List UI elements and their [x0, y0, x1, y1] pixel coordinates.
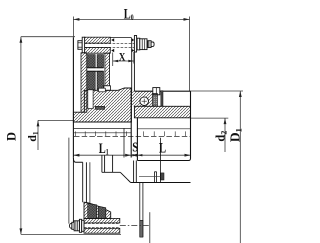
left hub bottom hook — [73, 158, 82, 162]
bolt B1 nut collar — [137, 38, 140, 50]
right band (hatched) — [134, 106, 190, 118]
lower sleeve left verticals — [68, 138, 70, 224]
seal blocks (cross hatch) — [153, 94, 158, 106]
dimension d2 — [191, 118, 229, 152]
bolt B1 tip — [151, 42, 154, 46]
svg-text:X: X — [119, 51, 126, 63]
lower teeth dark blocks — [88, 203, 97, 218]
hub slot — [88, 90, 93, 109]
bolt shank dashed lines — [85, 43, 135, 45]
hub dark bar — [95, 106, 104, 109]
lower flange upper strip — [84, 218, 120, 223]
ball pocket hatch — [132, 91, 153, 106]
right sleeve top face — [134, 90, 190, 92]
right hub right face — [190, 91, 192, 158]
top flange lower strip (hatched) — [85, 48, 111, 54]
dimension L0 — [73, 17, 189, 92]
lower flange lower strip — [84, 228, 120, 233]
flange OD line in gap — [110, 36, 131, 38]
S gap faces — [130, 88, 132, 158]
lower middle structure — [101, 155, 103, 172]
bottom bolt tip — [70, 223, 72, 228]
long stud bottom middle — [139, 183, 141, 238]
svg-text:D: D — [5, 132, 19, 141]
left sleeve wall (hatched column) — [81, 53, 87, 112]
centerline main — [74, 135, 191, 137]
riser foot bracket — [104, 86, 111, 91]
top flange upper strip (hatched) — [85, 37, 111, 43]
mesh lines — [87, 67, 104, 69]
bore strip right — [137, 128, 190, 130]
lower dark bar (mirror) — [161, 173, 164, 180]
bolt B1 washer left — [82, 37, 84, 53]
keyway line right hub — [159, 138, 161, 183]
right flange plate — [131, 38, 133, 91]
bottom bolt nut — [74, 221, 79, 231]
bottom bolt thread — [72, 222, 74, 229]
bolt B1 head — [78, 41, 82, 50]
gear teeth upper-left (dark blocks) — [87, 55, 95, 68]
bottom bolt collar — [82, 220, 84, 231]
lower wedge (hatched) — [84, 202, 111, 218]
bottom bolt shank dashed — [84, 223, 120, 225]
dimension X — [113, 52, 134, 66]
bolt B1 nut — [140, 39, 147, 50]
dimension D — [21, 37, 121, 235]
left cover plate — [72, 37, 74, 158]
bolt B1 thread end — [148, 41, 151, 48]
bore strip left — [73, 127, 131, 129]
X face markers — [111, 38, 114, 42]
hub notch — [99, 88, 106, 92]
bottom bolt washer — [79, 219, 81, 232]
plug on right sleeve — [153, 88, 160, 95]
dimension strip L1 S L — [73, 154, 190, 156]
extension line bottom right — [149, 212, 151, 243]
flange riser (hatched) — [105, 53, 110, 86]
ball seal — [140, 97, 149, 106]
dimension D1 — [191, 91, 244, 243]
dark bar right of seal — [161, 91, 163, 106]
bolt B1 washer right — [134, 36, 136, 53]
lower plug (mirror) — [153, 172, 155, 183]
centerline bottom bolt — [120, 225, 151, 227]
dimension d1 — [38, 120, 73, 150]
right hub bottom — [137, 159, 190, 161]
left hub hatched body — [73, 88, 131, 122]
lower plate verticals — [133, 161, 135, 183]
